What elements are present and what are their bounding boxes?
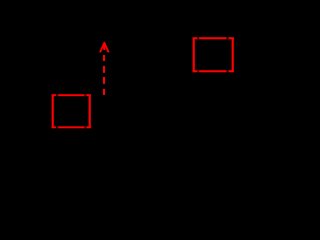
wire gap underlay top edge of B1 [52,94,91,96]
wire bottom edge of B1 [52,126,91,128]
wire right edge of B2 [232,38,234,73]
wire top edge of B1 [52,94,91,96]
dashed box B1 (bottom-left) [52,94,91,128]
arrow A1 head (filled, barbed with notch) [99,42,110,53]
wire gap underlay top edge of B2 [193,37,234,39]
wire left edge of B2 [193,38,195,73]
wire top edge of B2 [193,37,234,39]
wire gap underlay bottom edge of B2 [193,70,234,72]
arrow A1 dashed stem [103,55,105,95]
wire right edge of B1 [89,94,91,128]
dashed box B2 (top-right) [193,38,234,73]
wire gap underlay bottom edge of B1 [52,126,91,128]
wire bottom edge of B2 [193,70,234,72]
wire left edge of B1 [52,94,54,128]
